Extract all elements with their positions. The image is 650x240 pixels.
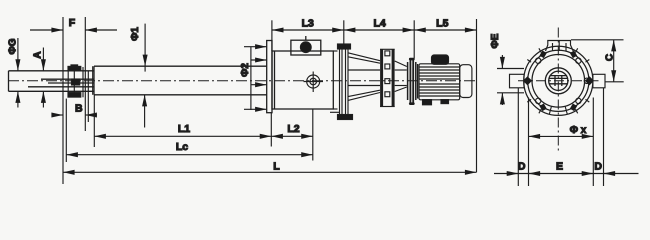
column pipe (stator tube) <box>94 66 267 95</box>
svg-text:L4: L4 <box>373 18 385 30</box>
drive housing cone <box>348 53 380 101</box>
svg-text:L5: L5 <box>436 18 448 30</box>
dimension L2 <box>271 109 313 161</box>
suction pipe stub <box>9 71 95 92</box>
dimension D E D <box>494 161 639 174</box>
svg-text:ΦE: ΦE <box>490 33 501 48</box>
dimension B <box>52 103 97 116</box>
relief valve box <box>291 36 321 55</box>
cone to motor flange <box>395 61 407 92</box>
end view hub and shaft <box>545 68 571 114</box>
dimension phi G <box>7 38 18 108</box>
dimension L5 <box>414 18 476 173</box>
dimension phi x <box>529 125 594 136</box>
dimension C <box>571 40 624 82</box>
end view stand legs <box>518 88 603 186</box>
end view side diamonds <box>523 76 594 85</box>
dimension Lc <box>66 99 312 162</box>
svg-text:C: C <box>605 54 616 61</box>
pump inlet flange <box>267 41 272 113</box>
motor terminal box side view <box>432 55 449 64</box>
wire centerline main axis <box>8 80 478 82</box>
end view side tabs <box>510 74 606 88</box>
svg-text:L1: L1 <box>178 123 190 135</box>
svg-text:F: F <box>69 17 76 29</box>
dimension phi E <box>490 33 524 105</box>
svg-text:Φ x: Φ x <box>570 125 587 136</box>
svg-text:A: A <box>33 51 44 58</box>
coupling flange <box>68 65 93 122</box>
svg-text:Lc: Lc <box>176 141 188 153</box>
body top line right of box <box>330 51 340 112</box>
svg-text:E: E <box>556 161 563 173</box>
end view clamp nuts <box>539 50 577 111</box>
motor M body <box>419 64 460 100</box>
end view bolt holes <box>536 58 590 104</box>
svg-text:Φ2: Φ2 <box>240 63 251 77</box>
svg-text:L3: L3 <box>302 18 314 30</box>
dimension phi 1 <box>130 24 145 128</box>
pump casing body <box>272 51 333 109</box>
dimension L3 <box>272 18 344 52</box>
motor end bell <box>460 65 472 98</box>
motor mounting flange stack <box>408 58 418 105</box>
dimension L4 <box>344 18 414 45</box>
svg-text:D: D <box>594 161 602 173</box>
dimension A <box>33 48 44 108</box>
motor end view outer rim <box>524 46 593 115</box>
svg-text:Φ1: Φ1 <box>130 27 141 41</box>
motor feet <box>423 100 449 105</box>
end view crosshair centerlines <box>518 28 599 153</box>
svg-text:B: B <box>75 103 83 115</box>
bearing column <box>338 44 353 120</box>
clamp ring <box>380 49 395 106</box>
svg-text:L: L <box>273 160 280 172</box>
discharge port <box>304 72 324 93</box>
end view rim lugs <box>527 48 589 113</box>
dimension phi 2 <box>240 47 267 110</box>
dimension L <box>63 160 477 172</box>
end view terminal box <box>546 41 574 52</box>
dimension L1 <box>94 95 271 147</box>
svg-text:ΦG: ΦG <box>7 38 18 54</box>
dimension F <box>30 17 117 184</box>
svg-text:D: D <box>518 161 526 173</box>
svg-text:L2: L2 <box>287 123 299 135</box>
